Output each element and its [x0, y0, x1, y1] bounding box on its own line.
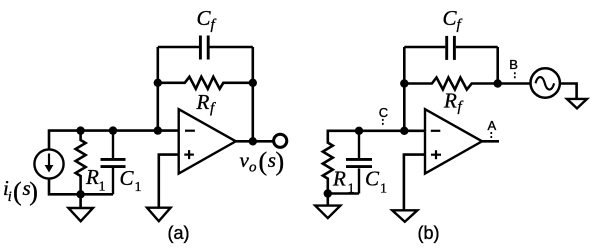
label Rf [196, 90, 217, 117]
node A leader [490, 132, 492, 139]
svg-text:R: R [196, 90, 210, 114]
node B leader [514, 72, 516, 79]
svg-text:i: i [8, 189, 12, 205]
svg-text:(: ( [259, 147, 268, 176]
output wire node A [482, 140, 499, 143]
feedback left leg wire b [403, 47, 406, 131]
junction dot R1 bottom b [324, 189, 332, 197]
node C leader [382, 119, 384, 126]
svg-text:1: 1 [99, 180, 106, 195]
node C label [379, 105, 388, 120]
svg-text:1: 1 [380, 182, 387, 197]
svg-text:A: A [488, 118, 497, 133]
ground at op-amp a [147, 208, 171, 222]
svg-text:f: f [210, 101, 216, 117]
wire non-inverting input to ground [159, 155, 179, 208]
wire node B to source [498, 82, 531, 85]
label ii(s) [3, 176, 38, 206]
label C1 b [365, 167, 387, 197]
resistor R1 [76, 131, 86, 195]
AC source VB [531, 68, 560, 97]
ground at bottom rail [68, 194, 93, 221]
ground at R1 b [315, 194, 340, 219]
svg-text:C: C [120, 166, 135, 190]
svg-text:f: f [211, 17, 217, 33]
wire: current source top to input rail [49, 131, 179, 150]
resistor Rf [158, 77, 253, 89]
node A label [488, 118, 497, 133]
ground at AC source [567, 99, 587, 109]
svg-text:R: R [332, 167, 346, 191]
current source Ii [34, 149, 63, 178]
wire: current source bottom to bottom rail [49, 179, 113, 195]
label (a) [168, 223, 190, 243]
capacitor C1 b [346, 131, 372, 194]
junction dot Rf right b [494, 79, 502, 87]
capacitor Cf b [447, 36, 455, 60]
svg-text:C: C [379, 105, 388, 120]
label R1 b [332, 167, 355, 197]
svg-text:f: f [458, 99, 464, 115]
svg-text:R: R [85, 165, 99, 189]
label Rf b [443, 89, 464, 116]
junction dot C1 top [109, 126, 117, 134]
junction dot inverting input node [154, 126, 162, 134]
junction dot Rf left [154, 79, 162, 87]
junction dot R1 top [76, 126, 84, 134]
svg-text:C: C [197, 6, 212, 30]
svg-text:(a): (a) [168, 223, 190, 243]
label Cf b [443, 6, 463, 33]
wire non-inverting input to ground b [404, 155, 425, 211]
wire AC source to ground [559, 84, 576, 99]
feedback top wire b [404, 46, 497, 49]
svg-text:C: C [365, 167, 380, 191]
junction dot output node [249, 137, 257, 145]
svg-text:): ) [276, 147, 285, 176]
junction dot C1 top b [355, 127, 363, 135]
resistor Rf b [404, 78, 497, 90]
feedback right leg wire [252, 47, 255, 141]
svg-text:o: o [249, 160, 257, 176]
ground at op-amp b [392, 210, 417, 222]
feedback left leg wire [157, 47, 160, 131]
resistor R1 b [323, 141, 333, 194]
svg-text:B: B [509, 57, 518, 72]
feedback right leg wire b [496, 47, 499, 84]
label R1 [85, 165, 106, 195]
feedback top wire with capacitor Cf [158, 46, 253, 49]
op-amp U2 [425, 109, 482, 173]
capacitor C1 [101, 131, 126, 195]
svg-text:f: f [457, 17, 463, 33]
bottom wire b [328, 192, 359, 195]
svg-text:1: 1 [135, 180, 142, 195]
svg-text:(: ( [13, 177, 22, 206]
svg-text:): ) [29, 177, 38, 206]
svg-text:v: v [240, 148, 250, 172]
junction dot Rf right [249, 79, 257, 87]
junction dot Rf left b [400, 79, 408, 87]
junction dot bottom rail [76, 190, 84, 198]
svg-text:R: R [443, 89, 457, 113]
capacitor Cf [200, 36, 208, 60]
svg-text:(b): (b) [418, 223, 440, 243]
label vo(s) [240, 147, 285, 176]
output wire [236, 140, 273, 143]
output terminal circle [274, 134, 287, 147]
label (b) [418, 223, 440, 243]
svg-text:C: C [443, 6, 458, 30]
node B label [509, 57, 518, 72]
junction dot inverting node b [400, 127, 408, 135]
label Cf [197, 6, 217, 33]
label C1 [120, 166, 142, 195]
wire input node C rail [328, 131, 425, 142]
op-amp U1 [179, 109, 236, 173]
